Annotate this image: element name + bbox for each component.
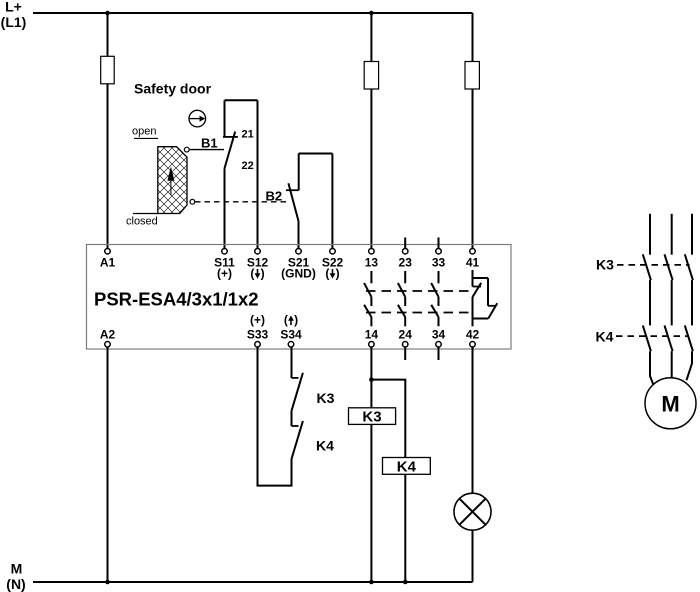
svg-text:L+: L+ (5, 0, 22, 15)
svg-text:closed: closed (126, 216, 158, 228)
fuse F1 (101, 56, 115, 84)
mechanical linkage dashed row 2 (366, 312, 472, 314)
aux contact K3 (NC) in feedback loop (292, 347, 303, 411)
svg-text:K4: K4 (316, 438, 334, 454)
pin 22 (242, 160, 254, 172)
position switch B1 (NC, terminals 21-22) (223, 100, 258, 248)
label open (132, 126, 156, 138)
terminal 34 (436, 342, 442, 348)
terminal 33 (436, 248, 442, 254)
net M (N) return rail (33, 581, 473, 583)
svg-text:(: ( (250, 267, 254, 281)
net L+ (L1) supply rail (33, 12, 473, 14)
mechanical link door to B1 (189, 149, 224, 151)
phase wires into motor (650, 351, 692, 386)
svg-text:24: 24 (399, 328, 413, 342)
label closed (126, 216, 158, 228)
svg-text:M: M (11, 561, 23, 577)
label B2 (266, 188, 283, 203)
relay contact 33-34 (431, 271, 438, 326)
label M (N) (6, 561, 25, 592)
stub above terminal 33 (438, 238, 440, 249)
label Safety door (134, 81, 212, 97)
terminal 42 (470, 342, 476, 348)
fuse F3 (465, 62, 479, 90)
junction on L+ rail at 13 column (369, 11, 374, 16)
safety door (hatched) (158, 147, 187, 214)
stub below terminal 34 (438, 347, 440, 360)
feedback loop wire S33 down (258, 347, 292, 486)
contactor K4 main contacts (643, 325, 693, 351)
K3 linkage dashed (617, 264, 690, 266)
junction on M rail at 14 column (369, 580, 374, 585)
svg-text:34: 34 (432, 328, 446, 342)
coil K4 (383, 458, 431, 475)
door actuator contact point closed (190, 199, 195, 204)
terminal 41 (470, 248, 476, 254)
terminal S21 (GND) (296, 248, 302, 254)
wire K4 coil to M rail (404, 474, 406, 582)
svg-text:(+): (+) (217, 267, 232, 281)
wire L+ to terminal 13 (370, 13, 372, 248)
svg-text:S34: S34 (280, 328, 302, 342)
contactor K3 main contacts (643, 254, 693, 280)
svg-text:41: 41 (466, 256, 480, 270)
svg-text:(L1): (L1) (1, 14, 27, 30)
svg-text:13: 13 (365, 256, 379, 270)
wire branch to K4 coil (371, 380, 405, 458)
wire A2 to M rail (107, 347, 109, 582)
coil K3 (349, 408, 396, 425)
indicator lamp H1 (454, 493, 491, 530)
svg-text:22: 22 (242, 160, 254, 172)
svg-text:14: 14 (365, 328, 379, 342)
mechanical linkage dashed row 1 (366, 290, 472, 292)
label L+ (1, 0, 27, 30)
svg-text:S33: S33 (247, 328, 269, 342)
svg-text:): ) (294, 313, 298, 327)
terminal 23 (402, 248, 408, 254)
svg-text:21: 21 (242, 128, 254, 140)
svg-text:(: ( (284, 313, 288, 327)
open position mark (134, 137, 158, 139)
svg-text:(GND): (GND) (281, 267, 316, 281)
svg-text:42: 42 (466, 328, 480, 342)
svg-text:K4: K4 (397, 458, 417, 475)
mechanical link door to B2 (dashed) (195, 201, 288, 203)
svg-text:A2: A2 (100, 328, 116, 342)
terminal A2 (105, 342, 111, 348)
fuse F2 (364, 62, 378, 90)
svg-text:Safety door: Safety door (134, 81, 212, 97)
closed position mark (133, 213, 158, 215)
pin 21 (242, 128, 254, 140)
relay contact 23-24 (398, 271, 405, 326)
door actuator contact point open (184, 147, 189, 152)
svg-text:K3: K3 (362, 409, 381, 426)
label K3 (596, 257, 614, 273)
terminal 24 (402, 342, 408, 348)
aux contact K4 (NC) in feedback loop (292, 411, 303, 459)
wire lamp to M rail (472, 530, 474, 582)
wire 14 down to M rail (370, 347, 372, 582)
svg-text:): ) (336, 267, 340, 281)
actuation direction symbol (189, 110, 206, 127)
svg-text:open: open (132, 126, 156, 138)
svg-text:K4: K4 (596, 329, 614, 345)
three phase supply stubs (650, 214, 692, 255)
svg-text:33: 33 (432, 256, 446, 270)
terminal A1 (105, 248, 111, 254)
relay contact 41-42 (NC double break) (473, 270, 498, 326)
label K4 (316, 438, 334, 454)
terminal 14 (369, 342, 375, 348)
junction on L+ rail at A1 column (105, 11, 110, 16)
wire L+ to A1 (107, 13, 109, 248)
K4 linkage dashed (616, 335, 689, 337)
svg-text:23: 23 (399, 256, 413, 270)
motor M (645, 378, 696, 429)
label PSR-ESA4/3x1/1x2 (94, 289, 259, 310)
svg-text:B2: B2 (266, 188, 283, 203)
label K4 (596, 329, 614, 345)
terminal 13 (369, 248, 375, 254)
relay contact 13-14 (364, 271, 371, 326)
svg-text:M: M (661, 391, 679, 416)
stub above terminal 23 (404, 238, 406, 249)
svg-text:(+): (+) (250, 313, 265, 327)
terminal S11 (+) (222, 248, 228, 254)
phase wires between K3 and K4 (650, 280, 692, 325)
safety relay U1 PSR-ESA4/3x1/1x2 body (87, 245, 512, 350)
junction at K4 branch (369, 377, 374, 382)
terminal S12 (255, 248, 261, 254)
label K3 (317, 390, 335, 406)
terminal S33 (+) (255, 342, 261, 348)
wire L+ to terminal 41 (472, 13, 474, 248)
svg-text:PSR-ESA4/3x1/1x2: PSR-ESA4/3x1/1x2 (94, 289, 259, 310)
svg-text:A1: A1 (100, 256, 116, 270)
svg-text:B1: B1 (201, 135, 218, 150)
svg-text:K3: K3 (596, 257, 614, 273)
svg-text:K3: K3 (317, 390, 335, 406)
wire 42 to lamp (472, 347, 474, 493)
label B1 (201, 135, 218, 150)
door movement arrow (167, 167, 174, 196)
svg-text:(N): (N) (6, 576, 25, 592)
svg-text:): ) (261, 267, 265, 281)
junction on M rail at A2 column (105, 580, 110, 585)
stub below terminal 24 (404, 347, 406, 360)
svg-text:(: ( (325, 267, 329, 281)
position switch B2 (NC) (286, 154, 332, 249)
terminal S22 (330, 248, 336, 254)
junction on M rail at K4 column (403, 580, 408, 585)
terminal S34 (288, 342, 294, 348)
